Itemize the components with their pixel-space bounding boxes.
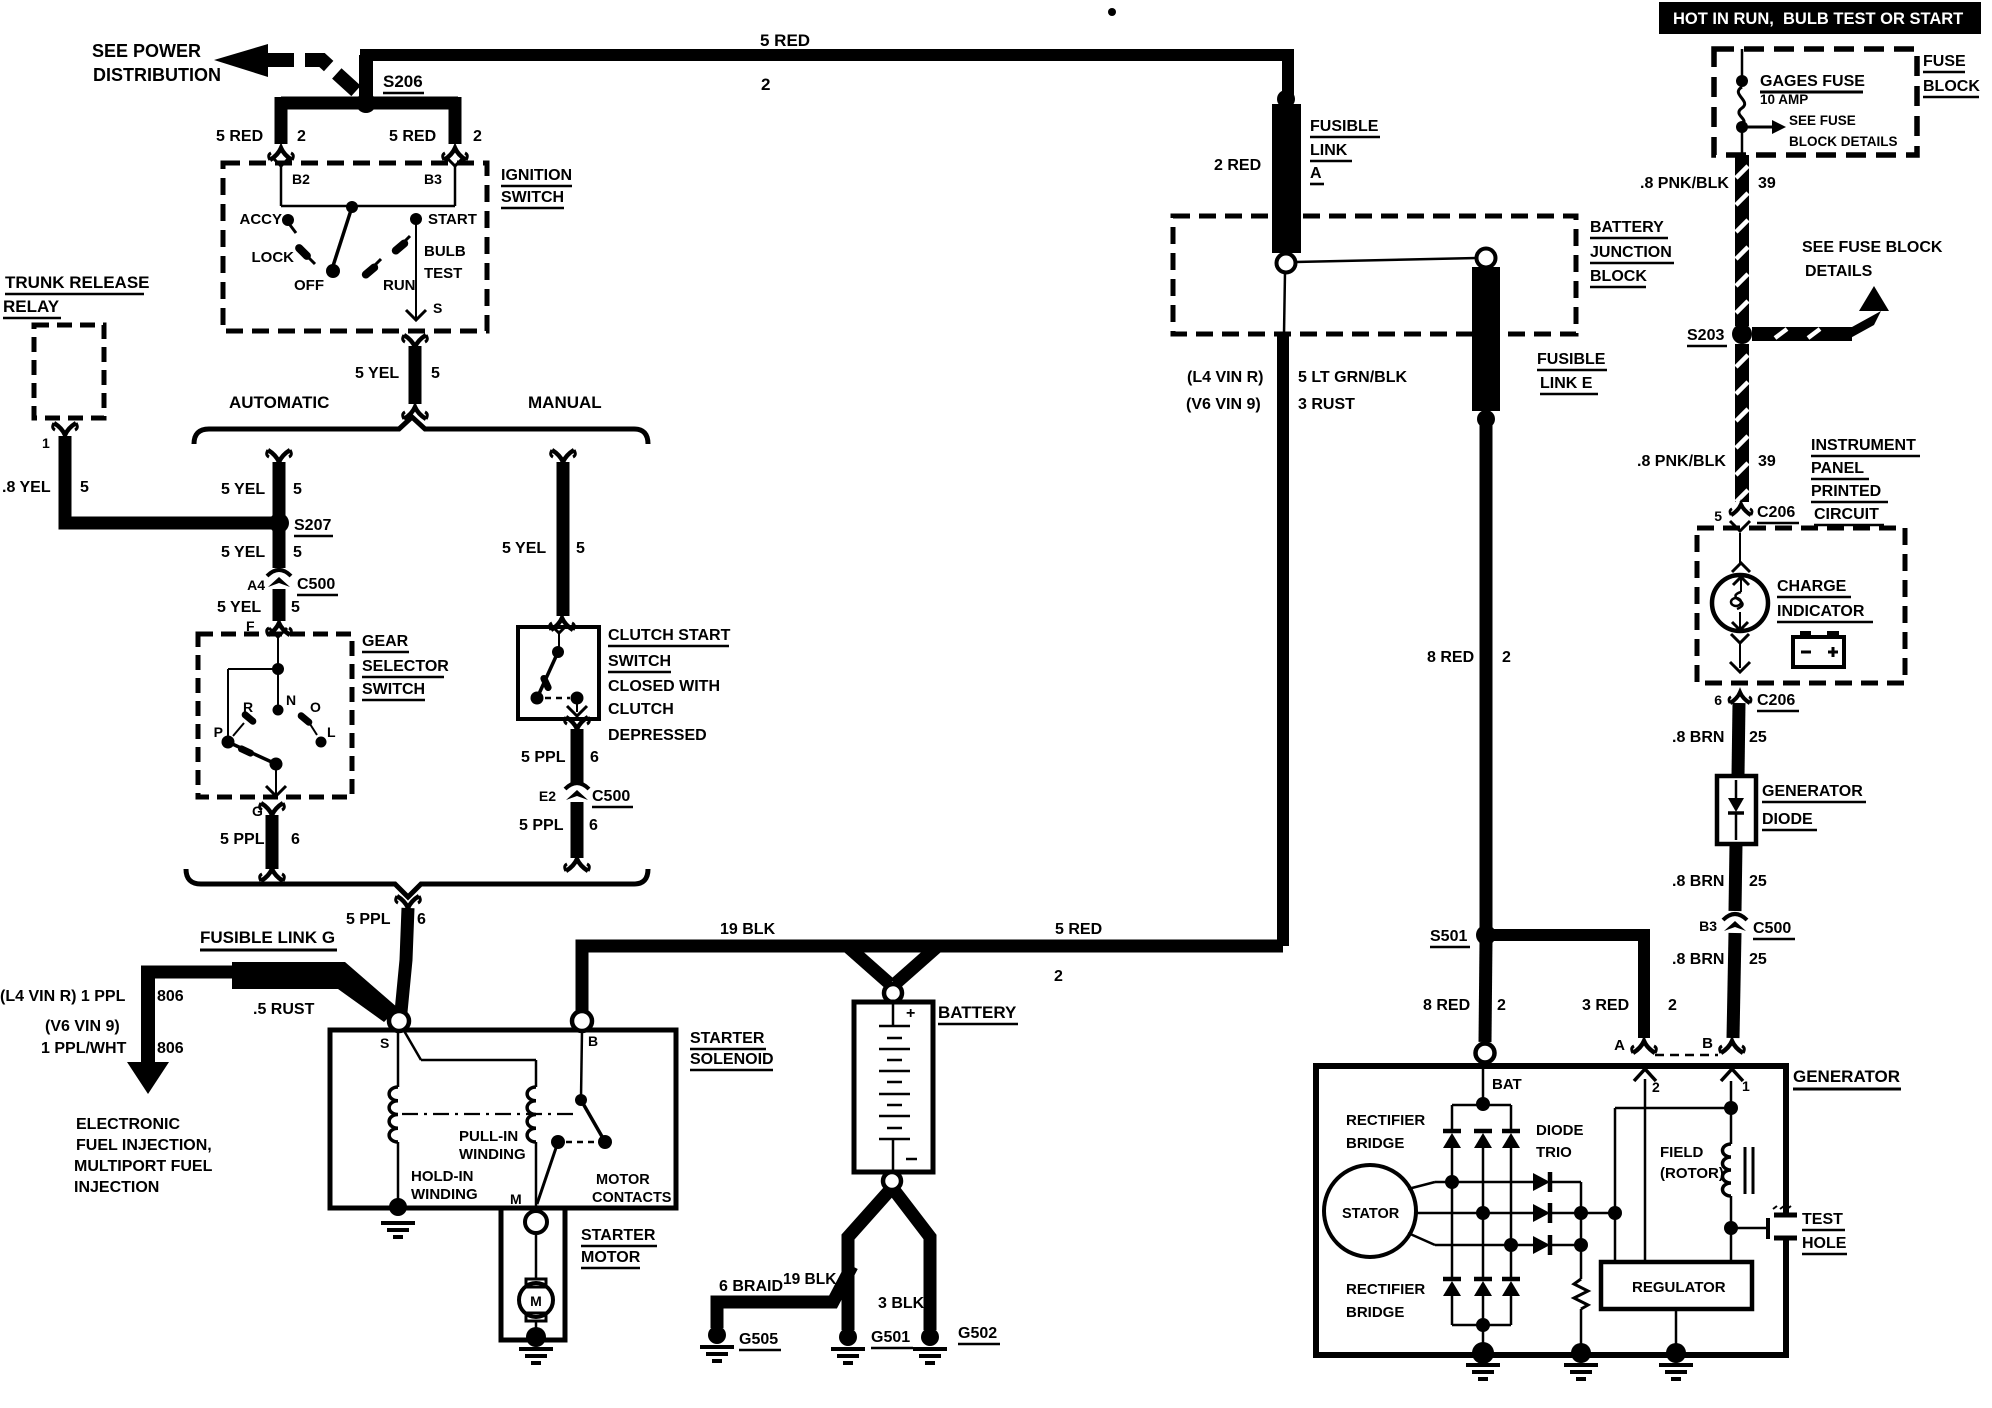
svg-text:CONTACTS: CONTACTS — [592, 1190, 672, 1206]
svg-text:C206: C206 — [1757, 504, 1795, 521]
hold-in winding — [389, 1031, 398, 1205]
wire 806 feed arrow down — [127, 972, 169, 1094]
charge indicator input arrow — [1730, 521, 1750, 563]
label RECTIFIER BRIDGE (top) — [1346, 1112, 1425, 1152]
svg-text:5: 5 — [291, 599, 300, 616]
svg-text:N: N — [286, 692, 296, 708]
svg-text:SWITCH: SWITCH — [608, 653, 671, 670]
svg-text:ELECTRONIC: ELECTRONIC — [76, 1116, 180, 1133]
svg-text:5 PPL: 5 PPL — [519, 817, 564, 834]
svg-text:BRIDGE: BRIDGE — [1346, 1135, 1404, 1152]
charge indicator output arrow — [1730, 641, 1750, 672]
generator diode box — [1717, 776, 1756, 844]
svg-text:HOLE: HOLE — [1802, 1235, 1847, 1252]
svg-text:5 PPL: 5 PPL — [346, 911, 391, 928]
svg-text:A: A — [1614, 1037, 1625, 1054]
svg-text:BATTERY: BATTERY — [1590, 219, 1664, 236]
svg-text:(ROTOR): (ROTOR) — [1660, 1165, 1724, 1182]
svg-text:2 RED: 2 RED — [1214, 157, 1261, 174]
svg-text:FUSE: FUSE — [1923, 53, 1966, 70]
svg-text:SEE POWER: SEE POWER — [92, 41, 201, 61]
svg-text:B3: B3 — [1699, 918, 1717, 934]
brace merge to starter — [186, 869, 648, 897]
label .8 YEL 5 — [2, 479, 89, 496]
field rotor line top — [1730, 1081, 1733, 1144]
label GENERATOR DIODE — [1762, 783, 1866, 830]
svg-text:SWITCH: SWITCH — [501, 189, 564, 206]
trunk release relay box — [34, 325, 104, 418]
wire 5 PPL below C500 E2 — [565, 802, 590, 871]
svg-text:BRIDGE: BRIDGE — [1346, 1304, 1404, 1321]
svg-text:.8 BRN: .8 BRN — [1672, 729, 1724, 746]
wire 8 RED — [1480, 419, 1493, 932]
label .8 BRN 25 (upper) — [1672, 729, 1767, 746]
label 8 RED 2 (lower) — [1423, 997, 1506, 1014]
gear wire to P — [228, 669, 278, 740]
svg-text:5 YEL: 5 YEL — [355, 365, 399, 382]
rectifier bottom bus — [1452, 1324, 1511, 1327]
terminal S solenoid — [380, 1011, 409, 1051]
rectifier top bus — [1452, 1104, 1511, 1107]
regulator box — [1601, 1262, 1752, 1309]
svg-text:1: 1 — [1742, 1078, 1750, 1094]
svg-text:DIODE: DIODE — [1536, 1122, 1584, 1139]
fusible link E top terminal — [1477, 249, 1496, 268]
connector C500 A4 — [247, 570, 338, 595]
label M terminal — [510, 1191, 522, 1207]
gear selector switch box — [198, 634, 352, 797]
charge indicator lower chevron — [1731, 634, 1749, 643]
generator ground 1 — [1466, 1342, 1500, 1379]
label 5 PPL 6 (merged) — [346, 911, 426, 928]
svg-text:INJECTION: INJECTION — [74, 1179, 159, 1196]
field rotor coil — [1723, 1144, 1732, 1196]
svg-text:5 RED: 5 RED — [216, 128, 263, 145]
hatched branch to fuse block details — [1752, 286, 1889, 341]
label FUSE BLOCK (right) — [1923, 53, 1980, 97]
phase bottom node — [1504, 1238, 1518, 1252]
label 3 BLK — [878, 1295, 925, 1312]
diode trio 3 — [1533, 1235, 1581, 1255]
svg-text:5 PPL: 5 PPL — [220, 831, 265, 848]
fusible link E bottom node — [1477, 410, 1495, 428]
svg-text:S: S — [433, 300, 442, 316]
terminal A arrow head — [1634, 1069, 1660, 1095]
svg-text:STARTER: STARTER — [581, 1227, 656, 1244]
pull-in winding — [527, 1087, 536, 1206]
banner HOT IN RUN, BULB TEST OR START — [1659, 2, 1981, 34]
svg-text:G505: G505 — [739, 1331, 778, 1348]
svg-text:5 YEL: 5 YEL — [221, 481, 265, 498]
svg-text:S206: S206 — [383, 72, 423, 91]
speck — [1108, 8, 1116, 16]
junction block down wire — [1284, 272, 1285, 334]
svg-text:L: L — [327, 724, 336, 740]
svg-text:INSTRUMENT: INSTRUMENT — [1811, 437, 1916, 454]
wire .8 PNK/BLK (S203 to C206) — [1735, 344, 1749, 502]
svg-text:DISTRIBUTION: DISTRIBUTION — [93, 65, 221, 85]
phase top node — [1445, 1175, 1459, 1189]
svg-text:2: 2 — [1054, 968, 1063, 985]
svg-text:B2: B2 — [292, 171, 310, 187]
gages fuse element — [1738, 87, 1744, 125]
solenoid ground node — [381, 1198, 415, 1237]
label DIODE TRIO — [1536, 1122, 1584, 1161]
svg-text:HOT IN RUN, BULB TEST OR STAR: HOT IN RUN, BULB TEST OR START — [1673, 10, 1963, 28]
svg-text:SOLENOID: SOLENOID — [690, 1051, 774, 1068]
charge indicator battery icon — [1793, 631, 1844, 667]
contact BULB TEST — [396, 236, 466, 282]
ground G505 — [700, 1326, 781, 1361]
svg-text:BLOCK DETAILS: BLOCK DETAILS — [1789, 134, 1898, 149]
field bottom node — [1724, 1221, 1738, 1235]
BAT top bus node — [1476, 1097, 1490, 1111]
wire .8 BRN (upper) — [1738, 703, 1739, 776]
label STARTER SOLENOID — [690, 1030, 774, 1070]
svg-text:FUSIBLE LINK G: FUSIBLE LINK G — [200, 928, 335, 947]
svg-text:DEPRESSED: DEPRESSED — [608, 727, 707, 744]
wire 8 RED below S501 — [1485, 940, 1486, 1042]
stator phase mid — [1416, 1212, 1533, 1215]
svg-text:6: 6 — [291, 831, 300, 848]
label TRUNK RELEASE RELAY — [3, 273, 150, 318]
label .8 BRN 25 (lower) — [1672, 951, 1767, 968]
gear wire to N — [277, 669, 279, 708]
label IGNITION SWITCH — [501, 167, 572, 208]
svg-text:(V6 VIN 9): (V6 VIN 9) — [45, 1018, 120, 1035]
rectifier diode bottom-mid — [1474, 1213, 1492, 1325]
label SEE FUSE BLOCK DETAILS (inside) — [1789, 113, 1898, 149]
svg-text:19 BLK: 19 BLK — [720, 921, 776, 938]
stator circle — [1324, 1165, 1416, 1257]
svg-text:RELAY: RELAY — [3, 297, 60, 316]
svg-text:GENERATOR: GENERATOR — [1762, 783, 1863, 800]
wire 5 PPL below clutch switch — [565, 717, 590, 783]
svg-text:BAT: BAT — [1492, 1076, 1522, 1093]
svg-text:GENERATOR: GENERATOR — [1793, 1067, 1900, 1086]
terminal 1 trunk relay — [42, 423, 77, 451]
wire battery negative to G502 — [894, 1190, 930, 1330]
svg-text:5 RED: 5 RED — [389, 128, 436, 145]
fusible link G — [141, 962, 398, 1022]
ground G501 — [831, 1328, 913, 1363]
wire 5 YEL automatic branch — [267, 450, 292, 516]
wire 5 PPL below gear switch — [260, 803, 285, 881]
contact ACCY — [239, 211, 296, 233]
contact P — [214, 724, 235, 749]
svg-text:FUEL INJECTION,: FUEL INJECTION, — [76, 1137, 212, 1154]
svg-text:FUSIBLE: FUSIBLE — [1537, 351, 1606, 368]
charge indicator bulb — [1712, 575, 1768, 631]
svg-text:25: 25 — [1749, 729, 1767, 746]
svg-text:6: 6 — [417, 911, 426, 928]
label RECTIFIER BRIDGE (bottom) — [1346, 1281, 1425, 1321]
clutch switch left node — [531, 692, 544, 705]
svg-text:TRIO: TRIO — [1536, 1144, 1572, 1161]
svg-text:S501: S501 — [1430, 928, 1467, 945]
label FUSIBLE LINK A — [1310, 118, 1380, 184]
svg-text:WINDING: WINDING — [411, 1186, 478, 1203]
splice S501 — [1430, 925, 1496, 947]
svg-text:(L4 VIN R) 1 PPL: (L4 VIN R) 1 PPL — [0, 988, 126, 1005]
clutch switch dashed link — [545, 697, 570, 700]
label 5 YEL 5 (ignition) — [355, 365, 440, 382]
battery top terminal — [884, 984, 902, 1002]
svg-text:806: 806 — [157, 1040, 184, 1057]
svg-text:A: A — [1310, 165, 1322, 182]
rectifier diode top-mid — [1474, 1131, 1492, 1213]
label 5 PPL 6 (clutch upper) — [521, 749, 599, 766]
label SEE FUSE BLOCK DETAILS (right) — [1802, 239, 1943, 280]
contact OFF — [294, 264, 340, 294]
svg-text:(V6 VIN 9): (V6 VIN 9) — [1186, 396, 1261, 413]
phase mid extension — [1581, 1212, 1615, 1215]
contact LOCK — [252, 248, 316, 266]
label MANUAL — [528, 393, 602, 412]
svg-text:2: 2 — [1497, 997, 1506, 1014]
svg-text:B: B — [1702, 1035, 1713, 1052]
svg-text:8 RED: 8 RED — [1427, 649, 1474, 666]
svg-text:5 RED: 5 RED — [760, 31, 810, 50]
svg-text:BLOCK: BLOCK — [1923, 78, 1980, 95]
splice S203 — [1687, 324, 1752, 346]
label G — [252, 803, 263, 819]
wire .8 BRN (lower) — [1733, 933, 1735, 1038]
svg-text:2: 2 — [473, 128, 482, 145]
label .5 RUST — [253, 1001, 315, 1018]
wire 5 RED top feed — [360, 55, 1288, 100]
label REGULATOR — [1632, 1279, 1726, 1296]
A-B dashed tie — [1655, 1054, 1718, 1057]
svg-text:2: 2 — [1652, 1079, 1660, 1095]
svg-text:CHARGE: CHARGE — [1777, 578, 1847, 595]
label FUSIBLE LINK G — [200, 928, 337, 950]
motor contacts dashed link — [566, 1141, 597, 1144]
svg-text:RUN: RUN — [383, 277, 416, 294]
svg-text:BULB: BULB — [424, 243, 466, 260]
gear selector wiper node — [270, 758, 283, 771]
gages fuse wire bottom — [1741, 131, 1744, 155]
svg-text:SEE FUSE BLOCK: SEE FUSE BLOCK — [1802, 239, 1943, 256]
starter solenoid box — [330, 1030, 676, 1208]
brace automatic/manual split — [194, 417, 648, 444]
battery box — [854, 1002, 933, 1172]
svg-text:STARTER: STARTER — [690, 1030, 765, 1047]
wire B2-B3 tie — [281, 205, 455, 208]
svg-text:5: 5 — [293, 544, 302, 561]
resistor — [1574, 1279, 1588, 1350]
contact N — [273, 692, 297, 716]
field top node — [1724, 1101, 1738, 1115]
svg-text:5: 5 — [1714, 508, 1722, 524]
label BAT — [1492, 1076, 1522, 1093]
label HOLD-IN WINDING — [411, 1168, 478, 1203]
diode trio 2 — [1533, 1203, 1581, 1223]
svg-text:SEE FUSE: SEE FUSE — [1789, 113, 1856, 128]
svg-text:PULL-IN: PULL-IN — [459, 1128, 518, 1145]
generator BAT terminal — [1476, 1044, 1495, 1063]
svg-text:5 PPL: 5 PPL — [521, 749, 566, 766]
svg-text:STATOR: STATOR — [1342, 1206, 1400, 1222]
svg-text:2: 2 — [761, 75, 770, 94]
ignition rotor pivot — [346, 201, 358, 213]
svg-text:6: 6 — [589, 817, 598, 834]
splice S207 — [269, 513, 333, 536]
svg-text:C500: C500 — [1753, 920, 1791, 937]
svg-text:DETAILS: DETAILS — [1805, 263, 1873, 280]
label .8 PNK/BLK 39 (upper) — [1640, 175, 1776, 192]
svg-text:R: R — [243, 699, 253, 715]
wire end B — [1702, 1035, 1744, 1053]
label FIELD (ROTOR) — [1660, 1144, 1724, 1182]
svg-text:2: 2 — [1668, 997, 1677, 1014]
svg-text:O: O — [310, 699, 321, 715]
battery plus — [906, 1005, 915, 1022]
svg-text:1 PPL/WHT: 1 PPL/WHT — [41, 1040, 127, 1057]
ignition rotor arm — [333, 207, 352, 266]
wire end A — [1614, 1037, 1656, 1054]
svg-text:TEST: TEST — [1802, 1211, 1843, 1228]
trio bus node mid — [1574, 1206, 1588, 1220]
svg-text:GEAR: GEAR — [362, 633, 409, 650]
svg-text:6: 6 — [1714, 692, 1722, 708]
svg-text:5 YEL: 5 YEL — [217, 599, 261, 616]
label INSTRUMENT PANEL PRINTED CIRCUIT — [1811, 437, 1920, 525]
field to regulator — [1730, 1228, 1733, 1262]
stator phase bottom — [1408, 1233, 1533, 1245]
svg-text:3 RED: 3 RED — [1582, 997, 1629, 1014]
label CLUTCH START SWITCH CLOSED WITH CLUTCH DEPRESSED — [608, 627, 731, 744]
svg-text:MANUAL: MANUAL — [528, 393, 602, 412]
regulator sense node — [1608, 1206, 1622, 1220]
BAT line — [1482, 1062, 1485, 1103]
label 3 RED 2 — [1582, 997, 1677, 1014]
svg-text:DIODE: DIODE — [1762, 811, 1813, 828]
svg-text:CLUTCH: CLUTCH — [608, 701, 674, 718]
fusible link A bottom terminal — [1277, 254, 1296, 273]
label TEST HOLE — [1802, 1211, 1847, 1254]
label 2 RED — [1214, 157, 1261, 174]
motor contact left — [551, 1135, 565, 1149]
svg-text:AUTOMATIC: AUTOMATIC — [229, 393, 329, 412]
connector C206 (pin 6) — [1714, 692, 1799, 711]
svg-text:C500: C500 — [592, 788, 630, 805]
diode trio 1 — [1533, 1172, 1581, 1192]
svg-text:FIELD: FIELD — [1660, 1144, 1703, 1161]
label 5 RED 2 (top feed) — [760, 31, 810, 94]
label (L4 VIN R) (V6 VIN 9) — [1186, 369, 1263, 413]
svg-text:5 YEL: 5 YEL — [221, 544, 265, 561]
BAT ground wire — [1482, 1325, 1485, 1350]
label GAGES FUSE 10 AMP — [1760, 73, 1865, 107]
wire end B3 drop — [443, 148, 468, 160]
label CHARGE INDICATOR — [1777, 578, 1873, 622]
clutch switch right node — [571, 692, 584, 705]
fuse block box — [1714, 49, 1917, 155]
label .8 PNK/BLK 39 (lower) — [1637, 453, 1776, 470]
wire .8 PNK/BLK (fuse block to S203) — [1735, 155, 1749, 326]
svg-text:PRINTED: PRINTED — [1811, 483, 1881, 500]
charge indicator box — [1697, 528, 1905, 683]
svg-text:S: S — [380, 1035, 389, 1051]
svg-text:FUSIBLE: FUSIBLE — [1310, 118, 1379, 135]
connector C206 (pin 5) — [1714, 504, 1799, 524]
label (V6 VIN 9) 1 PPL/WHT 806 — [41, 1018, 184, 1057]
label FUSIBLE LINK E — [1537, 351, 1607, 394]
fusible link A — [1272, 104, 1301, 253]
starter motor ground — [519, 1327, 553, 1363]
label SEE POWER DISTRIBUTION — [92, 41, 221, 85]
label 5 PPL 6 (clutch lower) — [519, 817, 598, 834]
connector C500 E2 — [539, 783, 633, 807]
svg-text:CIRCUIT: CIRCUIT — [1814, 506, 1879, 523]
A line to regulator — [1644, 1079, 1647, 1262]
svg-text:G501: G501 — [871, 1329, 910, 1346]
wire 19 BLK / 5 RED battery feed — [582, 946, 1283, 1012]
label 5 YEL 5 (manual) — [502, 540, 585, 557]
wire S206 bus to B2/B3 — [281, 97, 458, 144]
motor contacts feed — [581, 1031, 582, 1098]
svg-text:HOLD-IN: HOLD-IN — [411, 1168, 474, 1185]
starter motor wire — [535, 1233, 538, 1280]
svg-text:GAGES FUSE: GAGES FUSE — [1760, 73, 1865, 90]
battery cells — [879, 1002, 917, 1172]
wire 5 YEL below C500 — [267, 589, 292, 635]
ignition switch box — [223, 163, 487, 331]
svg-text:S207: S207 — [294, 517, 331, 534]
label 6 BRAID — [719, 1278, 783, 1295]
label AUTOMATIC — [229, 393, 329, 412]
label (L4 VIN R) 1 PPL 806 — [0, 988, 184, 1005]
plunger link dash-dot — [402, 1113, 578, 1115]
motor contacts arm — [581, 1100, 604, 1140]
svg-text:TRUNK RELEASE: TRUNK RELEASE — [5, 273, 150, 292]
svg-text:CLOSED WITH: CLOSED WITH — [608, 678, 720, 695]
svg-text:CLUTCH START: CLUTCH START — [608, 627, 731, 644]
motor contacts pivot — [575, 1094, 587, 1106]
svg-text:PANEL: PANEL — [1811, 460, 1864, 477]
svg-text:S203: S203 — [1687, 327, 1724, 344]
svg-text:2: 2 — [297, 128, 306, 145]
svg-text:G502: G502 — [958, 1325, 997, 1342]
svg-text:MOTOR: MOTOR — [581, 1249, 641, 1266]
slip rings — [1745, 1147, 1753, 1194]
generator box — [1316, 1066, 1786, 1355]
svg-text:INDICATOR: INDICATOR — [1777, 603, 1865, 620]
gages fuse wire top — [1741, 49, 1744, 78]
svg-text:19 BLK: 19 BLK — [783, 1271, 837, 1288]
svg-text:C206: C206 — [1757, 692, 1795, 709]
wire 5 YEL from ignition S — [403, 335, 428, 419]
label 5 PPL 6 (gear) — [220, 831, 300, 848]
svg-text:3 RUST: 3 RUST — [1298, 396, 1355, 413]
regulator ground wire — [1675, 1309, 1678, 1350]
terminal B2 arrow — [272, 157, 310, 206]
bottom bus node — [1476, 1318, 1490, 1332]
gear selector top node — [272, 663, 284, 675]
rectifier diode top-left — [1443, 1105, 1461, 1182]
label 5 YEL 5 (auto upper) — [221, 481, 302, 498]
svg-text:.8 PNK/BLK: .8 PNK/BLK — [1637, 453, 1726, 470]
terminal M starter motor — [525, 1211, 547, 1233]
svg-text:JUNCTION: JUNCTION — [1590, 244, 1672, 261]
contact RUN — [366, 259, 416, 294]
svg-text:RECTIFIER: RECTIFIER — [1346, 1112, 1425, 1129]
svg-text:SELECTOR: SELECTOR — [362, 658, 449, 675]
svg-text:5 RED: 5 RED — [1055, 921, 1102, 938]
svg-text:6 BRAID: 6 BRAID — [719, 1278, 783, 1295]
svg-text:806: 806 — [157, 988, 184, 1005]
